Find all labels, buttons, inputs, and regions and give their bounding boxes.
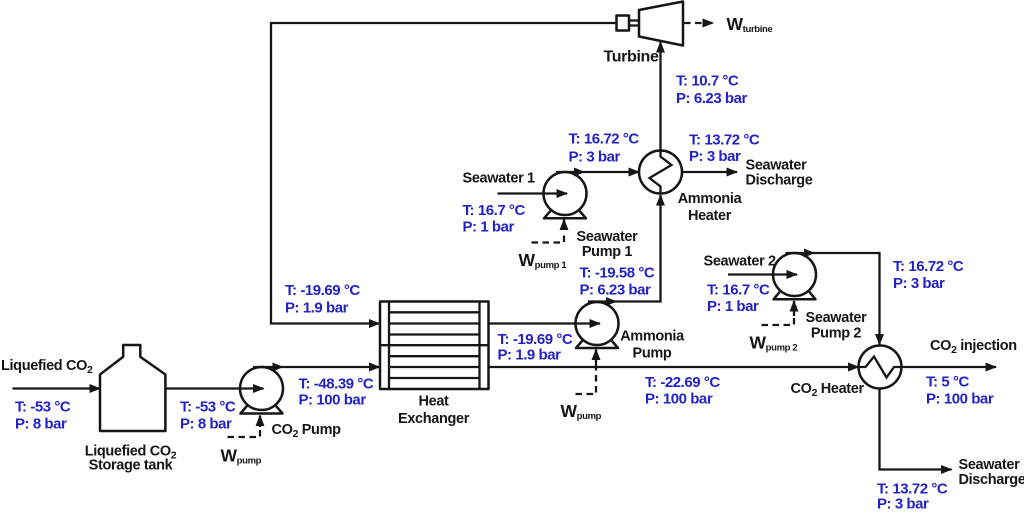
pump P2: ammonia pump body [576, 302, 619, 348]
label: T 10.7 P 6.23 bar [676, 73, 748, 108]
svg-text:Seawater 2: Seawater 2 [704, 254, 777, 270]
svg-text:Pump 1: Pump 1 [582, 244, 633, 260]
svg-text:P: 1 bar: P: 1 bar [707, 298, 759, 315]
wire: liquefied CO2 feed into tank [13, 387, 101, 389]
svg-text:T: 16.72 °C: T: 16.72 °C [893, 258, 964, 275]
svg-text:T: -48.39 °C: T: -48.39 °C [299, 376, 374, 393]
svg-text:P: 3 bar: P: 3 bar [689, 148, 741, 165]
pump P4: seawater pump 2 body [773, 253, 816, 299]
svg-text:P: 1 bar: P: 1 bar [463, 219, 515, 236]
svg-text:Heat: Heat [418, 394, 449, 410]
label: Liquefied CO2 Storage tank [85, 444, 177, 474]
label: Heat Exchanger [398, 394, 470, 428]
label: W_pump 1 [519, 250, 568, 271]
label: Ammonia Pump [620, 329, 685, 362]
svg-text:Seawater: Seawater [959, 457, 1021, 473]
label: CO2 Pump [272, 422, 342, 440]
svg-text:T: 5 °C: T: 5 °C [926, 374, 969, 391]
label: T -48.39 P 100 bar [299, 376, 374, 409]
svg-text:Discharge: Discharge [959, 472, 1024, 488]
svg-text:Seawater: Seawater [746, 158, 808, 174]
label: T 13.72 P 3 bar bottom discharge [877, 481, 948, 513]
svg-text:Pump: Pump [633, 346, 672, 362]
storage tank T1 [100, 345, 165, 431]
label: T -22.69 P 100 bar [645, 374, 720, 408]
heater E2: CO2 heater body [859, 346, 902, 389]
svg-text:CO2 injection: CO2 injection [930, 338, 1017, 356]
svg-text:Wpump 2: Wpump 2 [750, 333, 798, 354]
svg-text:T: 16.7 °C: T: 16.7 °C [463, 202, 526, 219]
label: Turbine [604, 49, 659, 66]
wire: W_pump dashed input to ammonia pump [576, 350, 597, 395]
svg-text:T: -22.69 °C: T: -22.69 °C [645, 374, 720, 391]
wire: CO2 heater outlet to CO2 injection [902, 366, 997, 368]
svg-text:Discharge: Discharge [746, 173, 813, 189]
svg-text:Seawater 1: Seawater 1 [463, 171, 536, 187]
svg-text:P: 100 bar: P: 100 bar [299, 392, 367, 409]
svg-text:Pump 2: Pump 2 [811, 326, 862, 342]
svg-text:P: 8 bar: P: 8 bar [180, 416, 232, 433]
label: CO2 Heater [791, 381, 865, 399]
pump P3: seawater pump 1 body [544, 172, 587, 218]
svg-text:P: 3 bar: P: 3 bar [893, 275, 945, 292]
svg-text:Ammonia: Ammonia [620, 329, 685, 345]
label: Seawater Pump 2 [806, 310, 868, 342]
svg-text:T: -53 °C: T: -53 °C [15, 399, 71, 416]
svg-text:P: 100 bar: P: 100 bar [926, 391, 994, 408]
label: Seawater Pump 1 [577, 229, 639, 260]
label: T -53 P 8 bar feed [15, 399, 71, 433]
label: T -19.69 P 1.9 bar turbine exhaust [285, 282, 360, 317]
wire: turbine work output dashed to W_turbine [684, 22, 713, 24]
svg-text:CO2 Heater: CO2 Heater [791, 381, 865, 399]
label: Ammonia Heater [678, 191, 743, 224]
svg-text:T: 13.72 °C: T: 13.72 °C [689, 132, 760, 149]
label: T 5 P 100 bar [926, 374, 994, 408]
svg-text:T: -53 °C: T: -53 °C [180, 399, 236, 416]
svg-text:P: 1.9 bar: P: 1.9 bar [285, 300, 349, 317]
svg-text:P: 8 bar: P: 8 bar [15, 416, 67, 433]
svg-text:CO2 Pump: CO2 Pump [272, 422, 342, 440]
label: T 16.72 P 3 bar seawater pump 2 outlet [893, 258, 964, 292]
svg-text:P: 3 bar: P: 3 bar [877, 496, 929, 513]
wire: tank outlet into CO2 pump [165, 387, 263, 389]
svg-text:Heater: Heater [688, 208, 732, 224]
heater E1: ammonia heater body [639, 151, 682, 194]
wire: W_pump 1 dashed input to seawater pump 1 [532, 220, 565, 243]
label: T 16.72 P 3 bar seawater pump 1 outlet [569, 131, 640, 166]
pump P1: CO2 pump body [240, 367, 283, 414]
svg-text:Exchanger: Exchanger [398, 411, 470, 427]
svg-text:T: 16.7 °C: T: 16.7 °C [707, 282, 770, 299]
label: Seawater Discharge bottom [959, 457, 1024, 488]
svg-text:Wturbine: Wturbine [727, 14, 773, 35]
svg-text:T: -19.69 °C: T: -19.69 °C [498, 331, 573, 348]
label: Seawater 1 [463, 171, 536, 187]
svg-text:Seawater: Seawater [577, 229, 639, 245]
heat exchanger HX1 [380, 302, 489, 390]
label: T -19.58 P 6.23 bar [580, 265, 655, 299]
wire: ammonia heater seawater discharge [682, 171, 737, 173]
svg-text:T: -19.58 °C: T: -19.58 °C [580, 265, 655, 282]
svg-text:Wpump: Wpump [221, 446, 262, 467]
turbine TB1 [617, 2, 684, 46]
wire: seawater 1 inlet into seawater pump 1 [498, 192, 568, 194]
wire: ammonia heater outlet up to turbine [659, 42, 661, 151]
svg-text:P: 1.9 bar: P: 1.9 bar [498, 347, 562, 364]
svg-text:Seawater: Seawater [806, 310, 868, 326]
wire: heat exchanger ammonia outlet into ammonia pump [489, 322, 601, 324]
svg-text:P: 6.23 bar: P: 6.23 bar [676, 90, 748, 107]
svg-text:Liquefied CO2: Liquefied CO2 [1, 358, 93, 376]
svg-text:Wpump 1: Wpump 1 [519, 250, 568, 271]
wire: turbine exhaust loop back to heat exchanger [271, 23, 617, 324]
svg-text:T: 16.72 °C: T: 16.72 °C [569, 131, 640, 148]
wire: seawater pump 1 outlet to ammonia heater [556, 168, 639, 177]
label: W_pump of ammonia pump [561, 401, 602, 422]
wire: W_pump 2 dashed input to seawater pump 2 [762, 301, 795, 325]
wire: seawater 2 inlet into seawater pump 2 [728, 273, 797, 275]
wire: CO2 heater seawater discharge bottom right [880, 389, 952, 470]
svg-text:P: 6.23 bar: P: 6.23 bar [580, 282, 652, 299]
label: T 16.7 P 1 bar seawater 1 [463, 202, 526, 236]
svg-text:T: -19.69 °C: T: -19.69 °C [285, 282, 360, 299]
wire: CO2 pump outlet to heat exchanger [253, 363, 380, 372]
svg-text:P: 100 bar: P: 100 bar [645, 391, 713, 408]
wire: heat exchanger CO2 outlet to CO2 heater [489, 366, 859, 368]
label: T 13.72 P 3 bar top discharge [689, 132, 760, 166]
label: W_pump 2 [750, 333, 798, 354]
label: Liquefied CO2 feed [1, 358, 93, 376]
svg-text:Turbine: Turbine [604, 49, 659, 66]
label: T -53 P 8 bar tank outlet [180, 399, 236, 433]
label: Seawater Discharge top [746, 158, 813, 189]
label: T -19.69 P 1.9 bar into ammonia pump [498, 331, 573, 364]
label: W_turbine [727, 14, 773, 35]
label: CO2 injection [930, 338, 1017, 356]
svg-text:Ammonia: Ammonia [678, 191, 743, 207]
label: Seawater 2 [704, 254, 777, 270]
wire: ammonia pump outlet up to ammonia heater [588, 195, 661, 306]
svg-text:Storage tank: Storage tank [89, 458, 174, 474]
label: T 16.7 P 1 bar seawater 2 [707, 282, 770, 316]
label: W_pump of CO2 pump [221, 446, 262, 467]
svg-text:T: 10.7 °C: T: 10.7 °C [676, 73, 739, 90]
wire: seawater pump 2 outlet down to CO2 heater [786, 249, 880, 345]
svg-text:Wpump: Wpump [561, 401, 602, 422]
wire: W_pump dashed input to CO2 pump [228, 416, 261, 438]
svg-text:P: 3 bar: P: 3 bar [569, 149, 621, 166]
